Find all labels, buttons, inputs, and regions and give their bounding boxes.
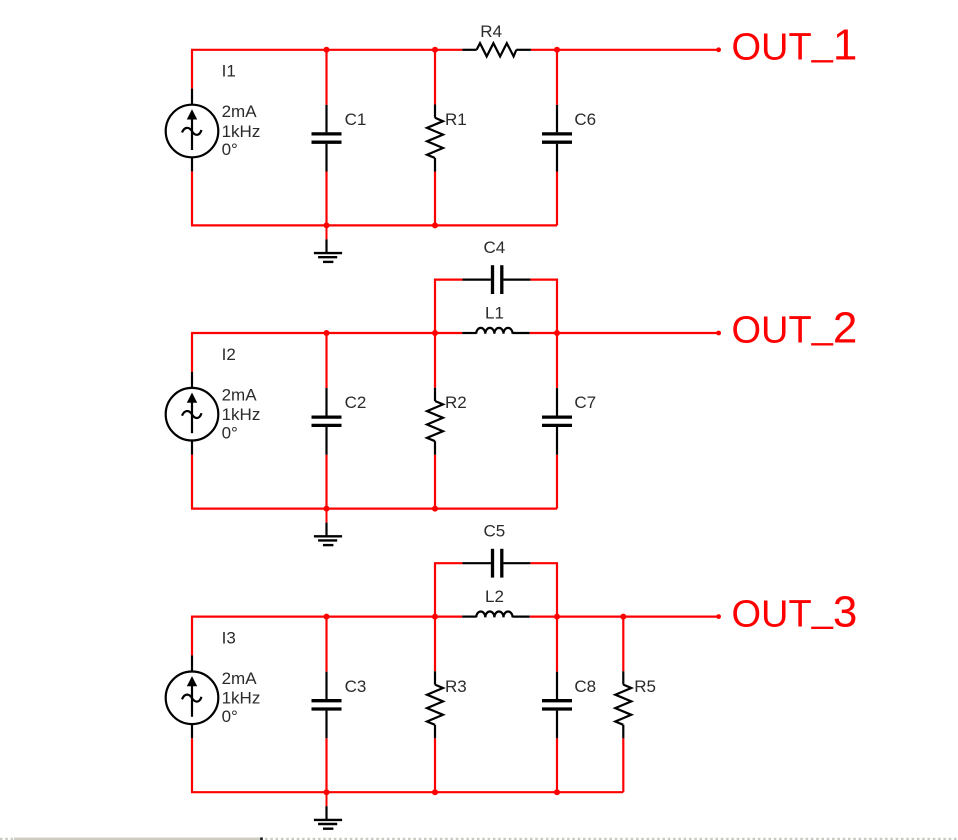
svg-text:C6: C6	[574, 110, 596, 129]
svg-text:I2: I2	[222, 345, 236, 364]
svg-text:C1: C1	[345, 110, 367, 129]
svg-text:C8: C8	[574, 677, 596, 696]
svg-text:OUT_1: OUT_1	[732, 21, 858, 70]
svg-text:I1: I1	[222, 62, 236, 81]
svg-text:C7: C7	[574, 393, 596, 412]
svg-text:0°: 0°	[222, 707, 238, 726]
svg-text:L1: L1	[485, 303, 504, 322]
svg-text:0°: 0°	[222, 423, 238, 442]
svg-text:OUT_2: OUT_2	[732, 304, 858, 353]
svg-text:R4: R4	[480, 22, 502, 41]
svg-text:C3: C3	[345, 677, 367, 696]
svg-text:R5: R5	[634, 677, 656, 696]
svg-text:I3: I3	[222, 628, 236, 647]
svg-text:R1: R1	[445, 110, 467, 129]
svg-text:1kHz: 1kHz	[222, 405, 261, 424]
svg-text:0°: 0°	[222, 140, 238, 159]
svg-text:R3: R3	[445, 677, 467, 696]
svg-text:2mA: 2mA	[222, 102, 258, 121]
svg-text:L2: L2	[485, 587, 504, 606]
svg-text:2mA: 2mA	[222, 669, 258, 688]
svg-text:2mA: 2mA	[222, 385, 258, 404]
svg-text:1kHz: 1kHz	[222, 689, 261, 708]
svg-text:OUT_3: OUT_3	[732, 587, 858, 636]
svg-text:C4: C4	[484, 238, 506, 257]
svg-text:R2: R2	[445, 393, 467, 412]
svg-text:C2: C2	[345, 393, 367, 412]
svg-text:C5: C5	[484, 522, 506, 541]
svg-text:1kHz: 1kHz	[222, 122, 261, 141]
